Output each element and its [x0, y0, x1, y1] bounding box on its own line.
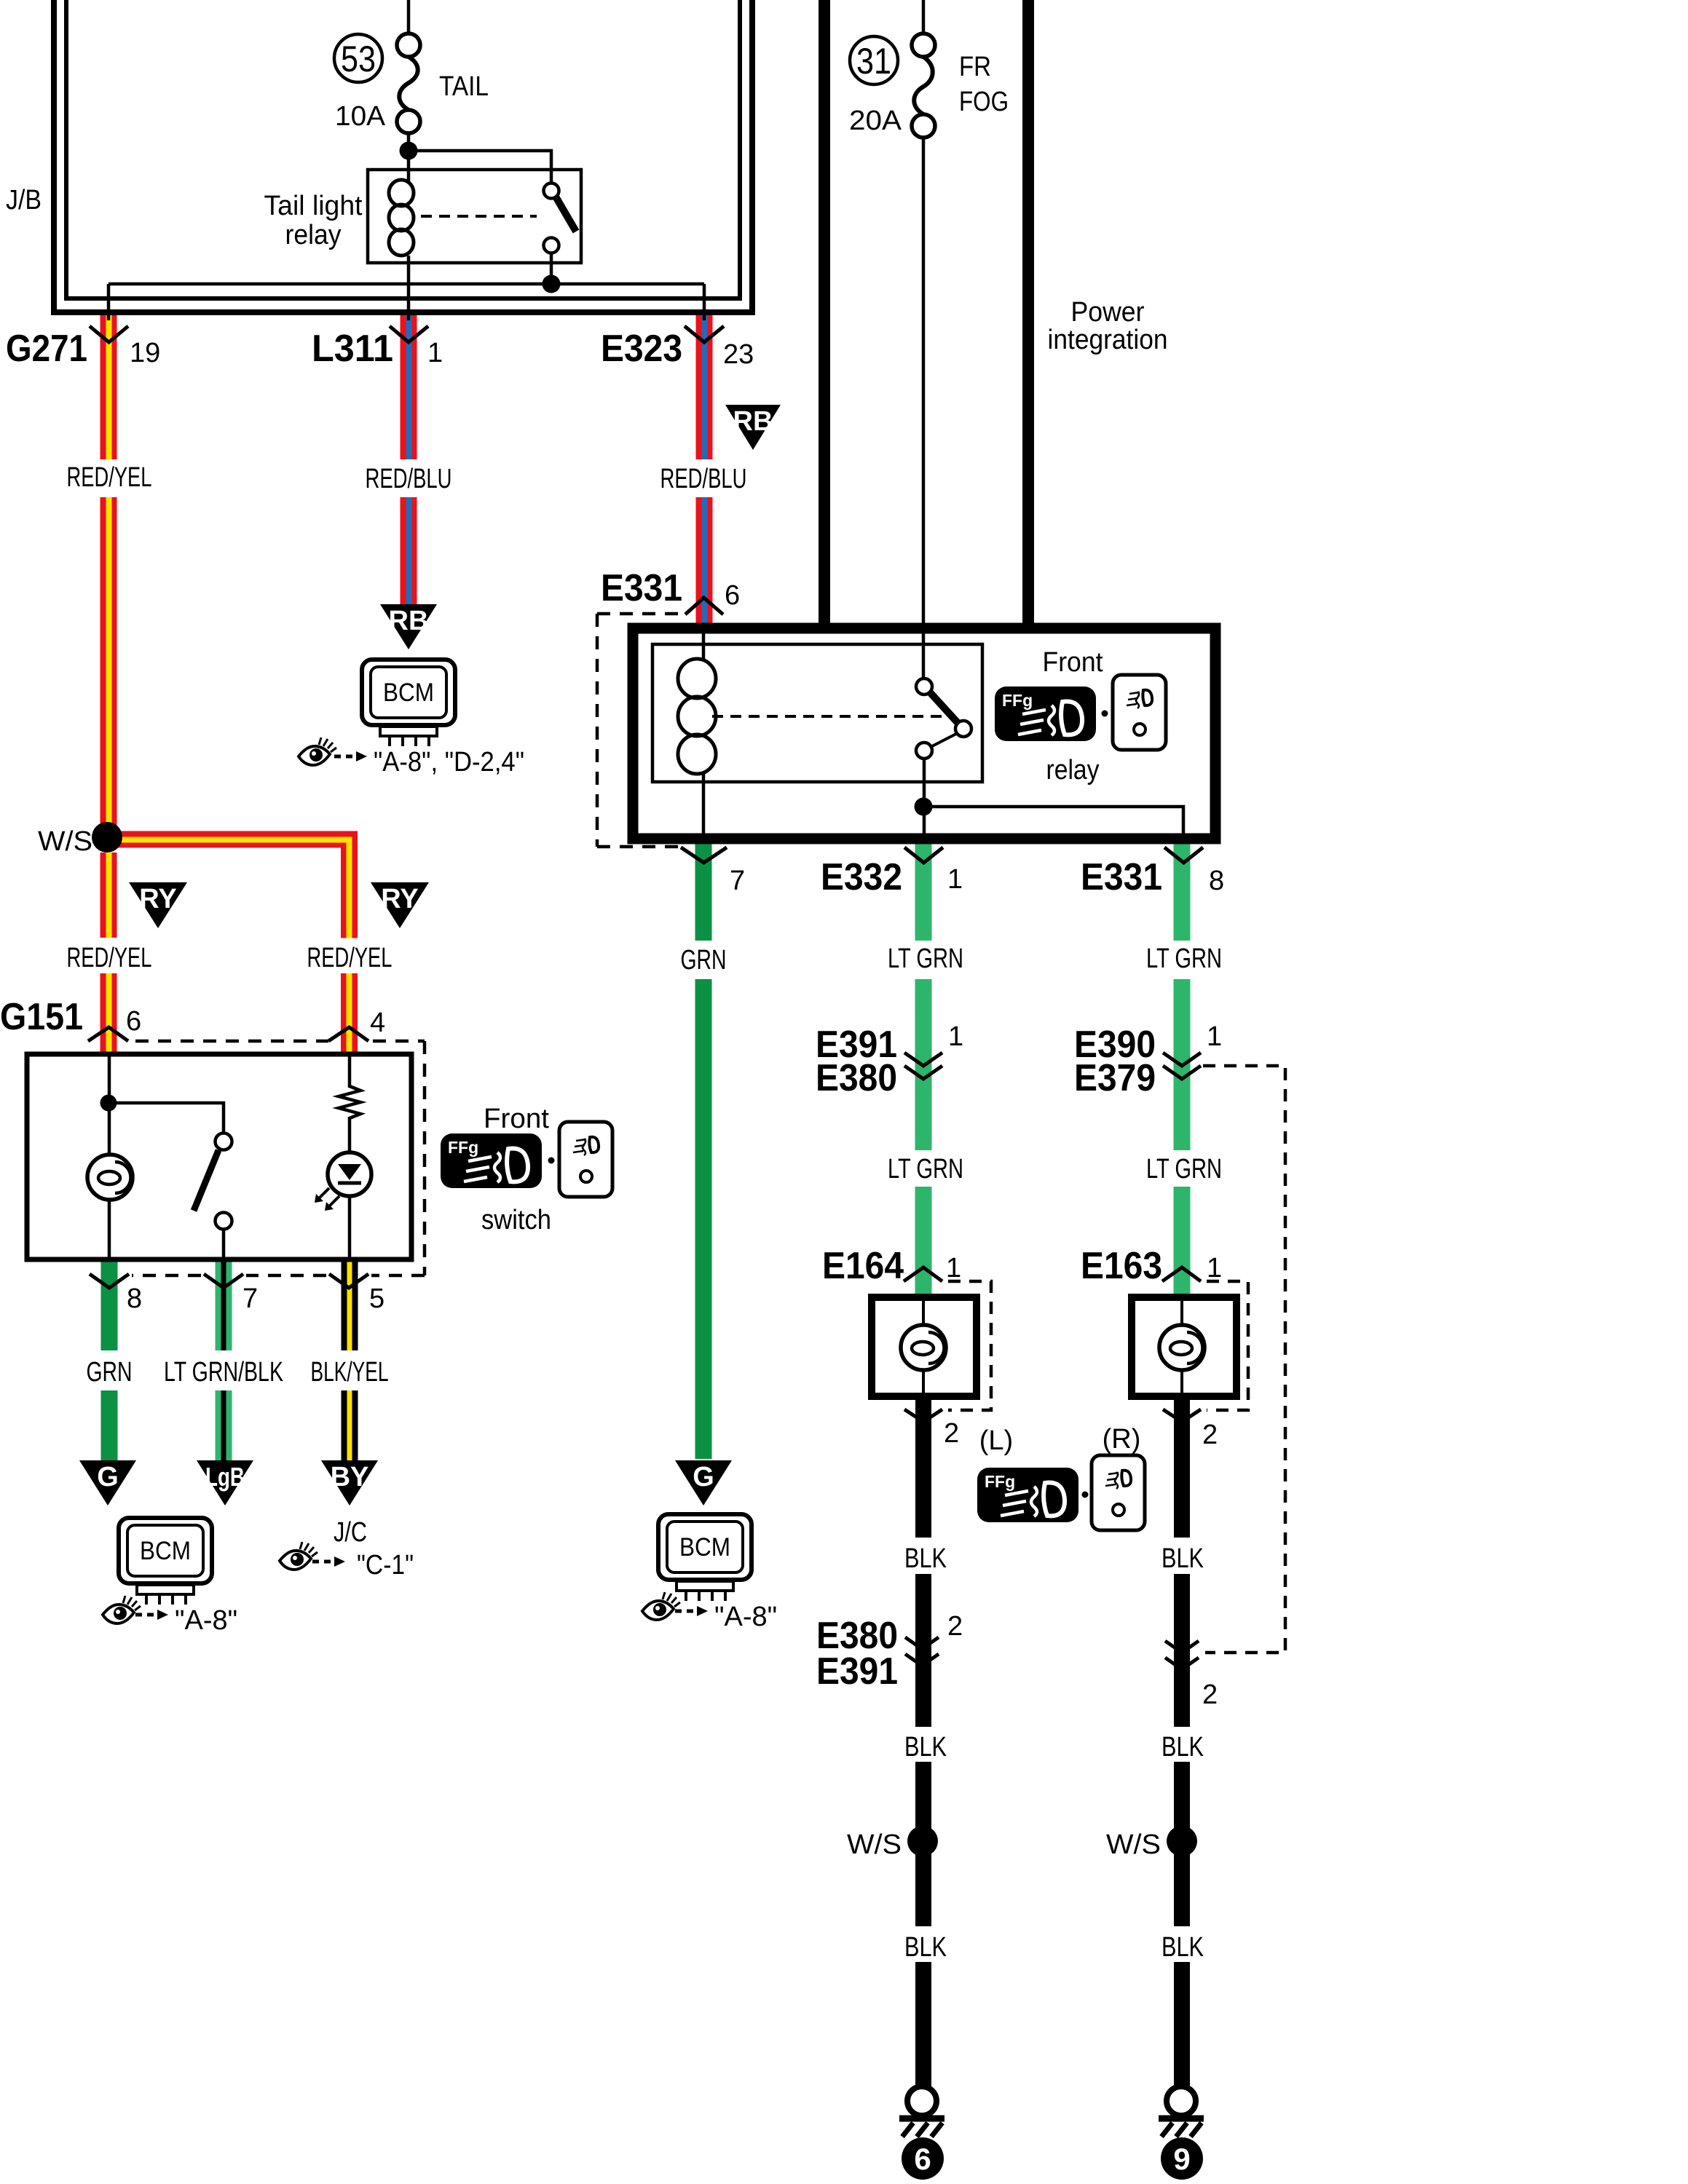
connector G271 pin 19 chevron — [90, 326, 128, 342]
svg-text:relay: relay — [1046, 755, 1100, 786]
svg-text:BLK: BLK — [904, 1543, 947, 1574]
connector G151 pin 4 chevron — [328, 1027, 368, 1041]
svg-text:W/S: W/S — [847, 1829, 902, 1860]
front fog lamp right E163 box — [1132, 1297, 1237, 1396]
svg-text:6: 6 — [725, 580, 740, 611]
wire code arrow RY (right) — [371, 882, 429, 928]
svg-text:GRN: GRN — [87, 1357, 133, 1388]
dashed actuation line (fog relay) — [712, 715, 942, 718]
node junction dot on bus — [543, 275, 561, 293]
svg-text:LT GRN: LT GRN — [888, 943, 963, 974]
wire code arrow G (to BCM) — [675, 1460, 732, 1506]
inline connector E390/E379 pin 1 double chevron — [1163, 1053, 1201, 1066]
wire BLK right column — [1174, 1396, 1190, 1538]
connector E331 pin 8 chevron — [1164, 847, 1203, 863]
svg-text:7: 7 — [730, 866, 745, 896]
wire code arrow RY (left) — [129, 882, 187, 928]
svg-text:BLK: BLK — [1162, 1543, 1204, 1574]
dashed connector boundary E164 — [948, 1281, 991, 1410]
svg-text:E391: E391 — [816, 1650, 898, 1693]
eye reference to A-8 — [642, 1592, 680, 1620]
front fog relay outer box — [633, 628, 1215, 839]
svg-text:RED/YEL: RED/YEL — [67, 462, 152, 493]
svg-text:G151: G151 — [0, 996, 83, 1038]
relay contacts (tail light relay) — [544, 183, 559, 199]
svg-text:5: 5 — [369, 1283, 384, 1314]
svg-text:RB: RB — [389, 606, 429, 636]
svg-text:TAIL: TAIL — [439, 71, 489, 102]
fog lamp bulb right — [1159, 1325, 1204, 1370]
svg-text:1: 1 — [427, 338, 443, 368]
connector E331 pin 6 chevron — [685, 598, 723, 614]
svg-text:BLK: BLK — [904, 1932, 947, 1963]
svg-text:2: 2 — [1202, 1679, 1218, 1710]
power integration right bar — [1022, 0, 1034, 626]
svg-text:RED/YEL: RED/YEL — [307, 943, 393, 973]
svg-text:(L): (L) — [979, 1425, 1013, 1456]
wire BLK left column — [915, 1396, 931, 1538]
svg-text:"C-1": "C-1" — [357, 1550, 414, 1580]
svg-text:E380: E380 — [816, 1057, 897, 1099]
svg-text:Tail light: Tail light — [264, 191, 363, 221]
svg-text:FR: FR — [959, 52, 991, 82]
svg-text:W/S: W/S — [38, 826, 92, 857]
wire RED/BLU from E323 — [696, 314, 713, 628]
svg-text:BY: BY — [331, 1462, 369, 1492]
connector E332 pin 1 chevron — [904, 847, 943, 863]
svg-text:Front: Front — [1043, 647, 1103, 678]
illumination lamp in G151 — [87, 1155, 133, 1200]
module BCM (fog sense) — [658, 1514, 752, 1601]
svg-text:J/C: J/C — [334, 1517, 367, 1548]
dashed connector boundary G151 top — [135, 1040, 328, 1043]
node junction dot below fuse 53 — [400, 142, 418, 160]
wire RED/YEL from G271 (upper) — [100, 314, 117, 837]
fuse 31 FR FOG 20A — [912, 33, 935, 138]
svg-text:4: 4 — [370, 1008, 385, 1038]
relay contacts (front fog relay) — [916, 678, 932, 695]
front fog lamp left E164 box — [872, 1297, 977, 1396]
svg-text:G: G — [97, 1462, 119, 1492]
eye reference to A-8 D-2,4 — [299, 737, 336, 765]
ground number 6 — [902, 2137, 944, 2180]
svg-text:20A: 20A — [849, 106, 902, 136]
inline connector E380/E391 pin 2 double chevron — [905, 1637, 939, 1649]
node junction dot in fog relay — [915, 798, 933, 816]
wire from top to fuse 53 — [407, 0, 411, 33]
wire into lamp branch — [108, 1054, 111, 1155]
wire E331-6 into relay coil — [702, 632, 706, 660]
svg-text:(R): (R) — [1103, 1424, 1141, 1455]
wires layer — [100, 314, 1191, 2086]
wire code arrow RB (E323 branch) — [725, 405, 781, 450]
wire fuse to node — [407, 133, 411, 182]
svg-text:RY: RY — [381, 884, 418, 914]
connector E164 pin 1 chevron — [904, 1267, 942, 1281]
svg-text:E331: E331 — [601, 567, 682, 609]
switch contacts in G151 — [216, 1133, 232, 1150]
inline connector pin 2 double chevron right — [1165, 1641, 1199, 1653]
eye reference to C-1 — [280, 1542, 318, 1570]
junction block J/B inner box — [66, 0, 740, 298]
svg-text:RED/BLU: RED/BLU — [366, 464, 452, 494]
svg-text:2: 2 — [1202, 1420, 1218, 1450]
wire lamp to pin 8 — [108, 1200, 111, 1259]
svg-text:"A-8", "D-2,4": "A-8", "D-2,4" — [374, 747, 524, 778]
svg-text:7: 7 — [242, 1283, 258, 1314]
svg-text:RY: RY — [139, 884, 176, 914]
relay coil (tail light relay) — [389, 180, 414, 256]
svg-text:31: 31 — [856, 41, 891, 82]
svg-text:53: 53 — [341, 39, 376, 79]
svg-text:RB: RB — [733, 406, 773, 437]
wire bus inside J/B — [109, 282, 704, 286]
wire LT GRN from E331 pin 8 — [1174, 844, 1191, 941]
svg-text:Front: Front — [484, 1104, 549, 1134]
fuse 53 TAIL 10A — [397, 33, 420, 133]
wire BLK/YEL from pin 5 — [342, 1262, 358, 1460]
wire coil output to L311 — [407, 256, 411, 320]
svg-text:BLK: BLK — [904, 1732, 947, 1762]
svg-text:G: G — [693, 1462, 714, 1492]
wire GRN from relay pin 7 — [695, 844, 712, 941]
wire code arrow BY — [321, 1460, 378, 1506]
wire RED/BLU from L311 — [401, 314, 417, 605]
wire node to switch branch — [109, 1103, 224, 1133]
wire LT GRN/BLK from pin 7 — [216, 1262, 232, 1460]
svg-text:1: 1 — [1207, 1021, 1222, 1052]
wire coil to pin 7 — [702, 772, 706, 834]
wire RED/YEL lower left — [100, 852, 117, 1054]
fog lamp bulb left — [901, 1325, 946, 1370]
connector G151 pin 5 chevron — [329, 1274, 368, 1288]
module BCM (switch sense) — [119, 1518, 212, 1605]
svg-text:8: 8 — [1209, 866, 1224, 896]
svg-text:6: 6 — [914, 2142, 931, 2176]
connector G151 pin 8 chevron — [90, 1274, 129, 1288]
connector E163 pin 1 chevron — [1162, 1267, 1201, 1281]
svg-text:19: 19 — [130, 338, 160, 368]
svg-text:2: 2 — [947, 1611, 963, 1642]
wire code arrow LgB — [197, 1460, 253, 1506]
svg-text:E164: E164 — [822, 1245, 904, 1287]
wire node to E331-8 — [923, 807, 1183, 834]
svg-text:BLK/YEL: BLK/YEL — [311, 1357, 389, 1388]
svg-text:1: 1 — [1207, 1253, 1222, 1283]
junction block J/B outer box — [54, 0, 752, 312]
svg-text:2: 2 — [944, 1418, 959, 1449]
svg-text:"A-8": "A-8" — [175, 1605, 237, 1636]
svg-text:6: 6 — [126, 1006, 141, 1037]
dashed actuation line (tail relay) — [421, 215, 537, 218]
svg-text:W/S: W/S — [1106, 1829, 1161, 1860]
svg-text:E323: E323 — [601, 328, 682, 370]
wire code arrow G — [79, 1460, 136, 1506]
wire fuse 31 to relay contact — [922, 138, 926, 679]
svg-text:LT GRN: LT GRN — [1146, 943, 1222, 974]
dashed connector boundary fog relay left — [597, 612, 685, 616]
wire RED/YEL branch horizontal — [107, 831, 358, 1055]
wire switch to pin 7 — [222, 1230, 226, 1259]
svg-text:LT GRN/BLK: LT GRN/BLK — [164, 1357, 283, 1388]
svg-text:integration: integration — [1048, 325, 1168, 355]
node W/S splice right BLK — [1167, 1826, 1197, 1856]
svg-text:E332: E332 — [821, 856, 902, 898]
svg-text:E163: E163 — [1081, 1245, 1162, 1287]
connector G151 pin 6 chevron — [88, 1027, 128, 1041]
wire contact to node — [923, 759, 926, 834]
svg-text:L311: L311 — [312, 328, 393, 370]
connector E164 pin 2 chevron — [904, 1409, 942, 1422]
svg-text:23: 23 — [723, 339, 754, 370]
fuse number circle 53 — [334, 34, 382, 82]
svg-text:RED/BLU: RED/BLU — [660, 464, 747, 494]
LED indicator in G151 — [328, 1152, 371, 1196]
front fog switch box G151 — [27, 1054, 411, 1259]
eye reference to A-8 — [103, 1596, 141, 1623]
svg-text:FOG: FOG — [959, 87, 1009, 117]
inline connector E391/E380 pin 1 double chevron — [904, 1053, 942, 1066]
fog relay inner box — [652, 644, 982, 782]
fog lamp icons between lamps — [977, 1468, 1078, 1522]
wire resistor to LED — [348, 1117, 352, 1154]
svg-text:Power: Power — [1071, 297, 1145, 328]
dashed harness boundary right — [1203, 1066, 1285, 1653]
svg-text:9: 9 — [1173, 2142, 1190, 2176]
wire LED to pin 5 — [348, 1196, 352, 1259]
wire bus drop to E323 — [703, 284, 706, 320]
connector G151 pin 7 chevron — [204, 1274, 243, 1288]
module BCM (tail input) — [362, 660, 455, 746]
dashed connector boundary E163 — [1207, 1281, 1248, 1410]
ground symbol right — [1159, 2086, 1204, 2137]
svg-text:LgB: LgB — [205, 1462, 245, 1492]
svg-text:G271: G271 — [6, 328, 87, 370]
connector E323 pin 23 chevron — [685, 326, 724, 342]
svg-text:switch: switch — [481, 1205, 551, 1235]
svg-text:1: 1 — [946, 1253, 961, 1283]
svg-text:LT GRN: LT GRN — [1146, 1154, 1222, 1184]
wire node to relay switch — [409, 151, 551, 183]
svg-text:RED/YEL: RED/YEL — [67, 943, 152, 973]
ground number 9 — [1161, 2137, 1203, 2180]
svg-text:1: 1 — [948, 1021, 963, 1052]
svg-text:E379: E379 — [1074, 1057, 1156, 1099]
connector E163 pin 2 chevron — [1163, 1409, 1201, 1422]
wire LT GRN from E332 pin 1 — [915, 844, 932, 941]
svg-text:GRN: GRN — [681, 945, 727, 976]
svg-text:J/B: J/B — [6, 185, 42, 215]
svg-text:BLK: BLK — [1162, 1932, 1204, 1963]
fuse number circle 31 — [850, 36, 898, 84]
wire bus drop to G271 — [107, 284, 111, 320]
wire GRN from pin 8 — [101, 1262, 118, 1350]
svg-text:BLK: BLK — [1162, 1732, 1204, 1762]
wire contact to bus node — [550, 253, 553, 284]
svg-text:1: 1 — [947, 864, 963, 895]
resistor in G151 — [348, 1054, 352, 1088]
connector pin 7 chevron below relay — [681, 847, 727, 863]
svg-text:E331: E331 — [1081, 856, 1162, 898]
svg-text:8: 8 — [127, 1283, 142, 1314]
wire from top to fuse 31 — [922, 0, 926, 33]
node W/S splice on RED/YEL — [92, 822, 122, 852]
node W/S splice left BLK — [907, 1826, 938, 1856]
tail light relay box — [368, 170, 581, 263]
node junction dot in G151 — [100, 1095, 117, 1112]
svg-text:relay: relay — [285, 220, 342, 250]
connector L311 pin 1 chevron — [390, 326, 428, 342]
relay coil (front fog relay) — [678, 659, 716, 774]
ground symbol left — [899, 2086, 944, 2137]
power integration left bar — [819, 0, 830, 626]
svg-text:"A-8": "A-8" — [714, 1602, 777, 1632]
svg-text:LT GRN: LT GRN — [888, 1154, 963, 1184]
svg-text:10A: 10A — [335, 101, 386, 132]
wire code arrow RB (to BCM) — [380, 604, 437, 649]
